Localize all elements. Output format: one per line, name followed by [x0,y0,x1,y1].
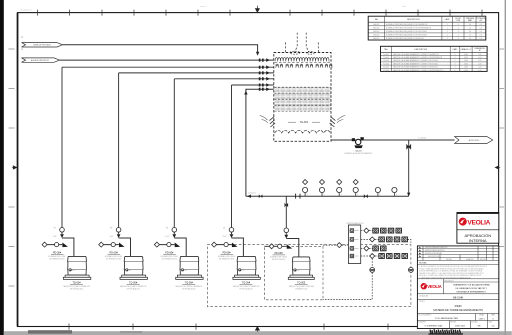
header valve 2 [364,194,368,198]
svg-text:PROYECTO:: PROYECTO: [445,280,455,282]
svg-text:BA-002: BA-002 [373,27,379,30]
svg-text:1: 1 [455,63,456,65]
station 5 header tap valve [285,203,289,207]
frame left arrow [12,166,18,169]
revision table [417,249,498,261]
notas band [417,264,498,266]
svg-text:CONTROLADOR PLC: CONTROLADOR PLC [346,222,365,225]
pipe from flag1 to tower top [63,45,258,54]
signal row 3 [361,246,387,251]
svg-text:DESCRIPCION: DESCRIPCION [415,49,428,51]
svg-text:1: 1 [447,28,448,30]
svg-text:6"-CW-001: 6"-CW-001 [418,138,426,140]
drift eliminator zigzag band [275,58,329,62]
svg-text:V. GUERRERO DIAZ: V. GUERRERO DIAZ [425,325,444,328]
injection point PI-102 [319,180,324,197]
svg-text:4: 4 [458,38,459,40]
scan scribble under title block [429,329,464,334]
dashed scope box future (outer) [207,245,411,307]
louvers right [330,117,336,127]
document number row [476,314,488,321]
svg-text:1: 1 [447,24,448,26]
svg-text:1000: 1000 [464,67,468,69]
riser return pipe to tower [246,89,274,196]
svg-text:1000: 1000 [464,70,468,72]
svg-text:TQ-001: TQ-001 [383,54,389,56]
drawing frame border [17,13,19,327]
svg-text:TQ-003: TQ-003 [383,60,389,62]
table 2 rows text [383,53,481,72]
svg-text:0.5: 0.5 [480,38,483,40]
pump 1 supply pipe [62,66,274,68]
frame right arrow [495,166,500,169]
svg-text:1000: 1000 [464,54,468,56]
dosing header pipe [246,195,409,197]
frame right ticks [499,49,504,247]
scan bottom grey band [4,331,512,335]
svg-text:TAG: TAG [375,18,379,21]
veolia logo (stamp) [459,218,467,226]
svg-text:CANT.: CANT. [445,18,451,21]
svg-text:TAG: TAG [384,48,388,51]
dashed scope box (inner, BA-005) [264,246,323,299]
svg-text:0.5: 0.5 [480,28,483,30]
svg-text:1.20: 1.20 [478,63,482,65]
svg-text:LPM: LPM [456,20,460,22]
svg-text:CAPACID. LT: CAPACID. LT [460,48,472,51]
svg-text:xxxx xx: xxxx xx [200,6,207,8]
svg-text:0.5: 0.5 [480,35,483,37]
svg-text:CANT.: CANT. [452,48,458,51]
svg-text:LSL: LSL [297,270,300,272]
svg-text:2"-DQ-001: 2"-DQ-001 [248,192,256,194]
svg-text:TRATAMIENTO DE AGUA A SISTEMA: TRATAMIENTO DE AGUA A SISTEMA [453,284,490,287]
svg-text:AB-CHIH: AB-CHIH [453,296,463,299]
svg-text:AGUA DE REPUESTO: AGUA DE REPUESTO [31,59,50,62]
signal drop with junction J1 [323,259,372,300]
svg-text:INTERNA: INTERNA [469,238,487,243]
svg-text:DESCRIPCION: DESCRIPCION [407,19,420,21]
signal row 1 [361,228,402,233]
cooling tower TE-001 (dashed shell) [274,53,331,142]
svg-text:10: 10 [469,24,471,26]
station 5 assembly [264,228,314,291]
pump 4 supply pipe [232,84,274,86]
svg-text:TANQUE DE ALMACENAMIENTO QUIMI: TANQUE DE ALMACENAMIENTO QUIMICO DE ACID… [393,66,439,69]
frame ruler ticks top [38,10,483,16]
fan deck stacks (dashed) [285,33,318,53]
svg-text:1: 1 [447,31,448,33]
svg-text:M: M [20,48,24,50]
svg-text:1: 1 [455,60,456,62]
svg-text:BA-004: BA-004 [373,34,379,37]
injection point PI-101 [303,180,308,197]
svg-text:BOMBA DOSIFICADORA QUIMICO DE: BOMBA DOSIFICADORA QUIMICO DE ACIDO [386,37,425,40]
svg-text:A PROCESO: A PROCESO [469,139,480,142]
svg-text:BOMBA DOSIFICADORA QUIMICO DE: BOMBA DOSIFICADORA QUIMICO DE BIOCIDA 2 [386,34,427,37]
internal approval stamp [457,213,499,244]
svg-text:mm: mm [492,326,496,328]
riser up arrow [244,91,247,95]
feed drop pipe 3 [173,79,175,229]
svg-text:10: 10 [469,28,471,30]
off-page flag A PROCESO [455,137,493,144]
pump station PD/TQ-003 [154,228,203,291]
svg-text:DE BIOCIDA (1X): DE BIOCIDA (1X) [272,258,286,261]
instrument stem labels [307,194,397,196]
fan ellipses [290,51,300,54]
scan black left band [0,0,4,335]
svg-text:1: 1 [447,38,448,40]
equipment table 2 [381,46,488,71]
svg-text:P. ID.-BRZ000000-TEN: P. ID.-BRZ000000-TEN [435,318,458,320]
svg-text:TQ-005: TQ-005 [383,67,389,69]
rack inlet diamond [337,243,342,248]
svg-text:TQ-002: TQ-002 [383,57,389,59]
feed drop pipe 2 [118,73,120,229]
svg-text:1: 1 [455,70,456,72]
air arrow right [337,116,345,123]
svg-text:1 DE 1: 1 DE 1 [478,318,485,320]
air arrow left [260,116,268,123]
svg-text:1000: 1000 [464,57,468,59]
frame ruler ticks bottom [69,324,452,330]
svg-text:No. DOCUMENTO:: No. DOCUMENTO: [419,314,433,316]
controller rack UC-100 [346,222,365,264]
tank 5 body [292,257,310,275]
svg-text:TANQUE DE ALMACENAMIENTO QUIMI: TANQUE DE ALMACENAMIENTO QUIMICO DISPERS… [393,56,443,59]
signal row 4 [361,254,408,259]
feed drop pipe 1 [61,67,63,228]
table 1 rows text [373,23,482,40]
svg-text:M: M [20,36,24,38]
scan bottom dark smudges [28,330,72,333]
pipe from flag2 to tower [60,59,274,61]
suction from tank farm line [264,245,286,247]
header left arrowhead [247,195,251,198]
title block [417,246,498,329]
svg-text:1000: 1000 [464,60,468,62]
off-page flag AGUA DE REPUESTO (line 2) [22,58,60,62]
svg-text:BOMBA DOSIFICADORA QUIMICO DE: BOMBA DOSIFICADORA QUIMICO DE INHIBIDOR [386,23,428,26]
svg-text:BA-006: BA-006 [355,150,361,153]
frame top centre arrow [255,6,259,13]
signal line to rack from tank farm [323,244,337,246]
svg-text:4: 4 [458,28,459,30]
svg-text:1: 1 [307,194,308,196]
frame left ticks [9,49,15,286]
pump station PD/TQ-002 [99,228,148,291]
header valve 1 [259,194,263,198]
svg-text:1.20: 1.20 [478,60,482,62]
svg-text:xxx-xxxx-xx: xxx-xxxx-xx [20,10,32,12]
svg-text:xxxx: xxxx [402,6,406,8]
svg-text:BA-003: BA-003 [373,30,379,33]
signal drop with junction J2 [409,268,414,273]
branch pipe down to dosing header [408,140,410,196]
svg-text:TANQUE DE ALMACENAMIENTO QUIMI: TANQUE DE ALMACENAMIENTO QUIMICO INHIBID… [393,53,439,56]
pump station 5 drop from header [285,196,287,228]
header flange marks [296,194,300,199]
svg-text:BA-005: BA-005 [373,37,379,40]
svg-text:4: 4 [458,24,459,26]
svg-text:VEOLIA: VEOLIA [427,284,441,289]
inline pump BA-006 [344,137,373,155]
tower entry marks line2 [259,58,270,62]
bottom row [450,321,488,329]
arrowhead into header [407,193,410,197]
sample point AI-106 [392,187,397,196]
svg-text:10: 10 [469,38,471,40]
injection point PI-103 [337,180,342,197]
svg-text:TANQUE DE ALMACENAMIENTO QUIMI: TANQUE DE ALMACENAMIENTO QUIMICO BIOCIDA… [393,62,438,65]
svg-text:SISTEMA DE ENFRIAMIENTO: SISTEMA DE ENFRIAMIENTO [456,290,486,293]
svg-text:TITULO:: TITULO: [419,301,426,303]
svg-text:UNID:: UNID: [489,322,494,324]
svg-text:10: 10 [469,31,471,33]
basin water line (wavy) [275,130,331,133]
pump station PD/TQ-004 [212,228,261,291]
svg-text:BOMBA DOSIFICADORA QUIMICO DE: BOMBA DOSIFICADORA QUIMICO DE BIOCIDA 1 [386,30,427,33]
svg-text:NOTAS:: NOTAS: [419,262,427,265]
signal row 2 [361,237,411,243]
feed drop pipe 4 [231,85,233,228]
svg-text:1: 1 [447,35,448,37]
svg-text:BOMBA DOSIFICADORA QUIMICO DE: BOMBA DOSIFICADORA QUIMICO DE DISPERSANT… [386,27,432,30]
svg-text:1.20: 1.20 [478,54,482,56]
svg-text:1: 1 [455,67,456,69]
svg-text:REV: REV [492,315,495,317]
scan right margin grey line [505,0,506,335]
svg-text:1.20: 1.20 [478,57,482,59]
svg-text:TE-001: TE-001 [300,120,309,124]
svg-text:JUNIO 2021: JUNIO 2021 [455,326,465,328]
frame bottom centre arrow [255,327,259,332]
pump 3 supply pipe [174,78,273,80]
svg-text:SISTEMA DE TORRE DE ENFRIAMIEN: SISTEMA DE TORRE DE ENFRIAMIENTO [433,308,483,312]
svg-text:VIENE DE PROCESO: VIENE DE PROCESO [33,45,51,47]
svg-text:1000: 1000 [464,63,468,65]
svg-text:4: 4 [458,35,459,37]
svg-text:DESCRIPCION: DESCRIPCION [428,256,440,258]
svg-text:0.5: 0.5 [480,31,483,33]
injection point PI-104 [353,180,358,197]
equipment table 1 [368,16,486,40]
svg-text:VEOLIA: VEOLIA [467,220,490,227]
svg-text:TQ-004: TQ-004 [383,63,389,65]
svg-text:1.20: 1.20 [478,70,482,72]
svg-text:TQ-006: TQ-006 [383,70,389,72]
basin outlet pipe to right [331,139,455,141]
louvers left [269,117,275,127]
pump station PD/TQ-001 [42,228,91,291]
svg-text:0.5: 0.5 [480,24,483,26]
spray nozzles row [275,63,333,68]
svg-text:1: 1 [455,57,456,59]
svg-text:P&ID: P&ID [455,304,463,308]
svg-text:1: 1 [455,54,456,56]
logo cell [443,279,445,294]
sample point AI-105 [375,187,380,196]
svg-text:DE GENERACION DE VAPOR Y: DE GENERACION DE VAPOR Y [455,287,487,290]
svg-text:TANQUE DE ALMACENAMIENTO QUIMI: TANQUE DE ALMACENAMIENTO QUIMICO BIOCIDA… [393,59,438,62]
branch valve (bowtie) [407,144,411,149]
svg-text:10: 10 [469,35,471,37]
tower tag TE-001 [288,121,320,123]
fill pack (dotted) [274,87,330,111]
svg-text:TANQUE DE ALMACENAMIENTO QUIMI: TANQUE DE ALMACENAMIENTO QUIMICO DISPERS… [393,69,444,72]
svg-text:OXIDANTE (1X): OXIDANTE (1X) [295,288,308,291]
svg-text:1.20: 1.20 [478,67,482,69]
svg-text:BA-001: BA-001 [373,23,379,26]
notes paragraph [419,265,488,279]
pump 2 supply pipe [119,72,274,74]
svg-text:REVISO: REVISO [480,259,487,261]
project title cell [444,281,499,283]
svg-text:4: 4 [458,31,459,33]
off-page flag VIENE DE POZO (line 1) [22,43,63,47]
